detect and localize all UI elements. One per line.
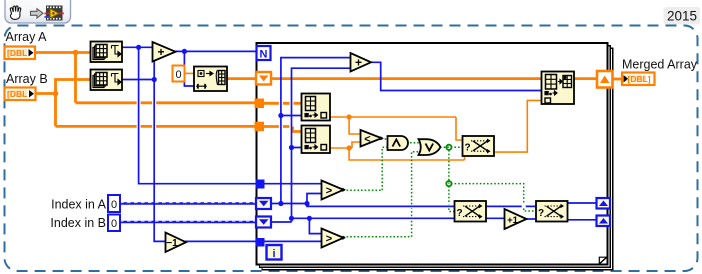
svg-text:Merged Array: Merged Array <box>622 58 698 72</box>
wire Index in A constant to left SR1 <box>120 202 257 204</box>
boolean wire AND out to OR top <box>410 142 421 144</box>
wire index B inside loop to swap2 f <box>271 218 455 222</box>
function AND <box>388 136 409 150</box>
wire Array Size 1 out to add1 and down to tunnel 3 <box>122 47 256 183</box>
svg-text:Index in B: Index in B <box>50 216 106 230</box>
function Array Size 1 <box>91 42 123 63</box>
left shift register index B <box>256 217 271 228</box>
wire swap3 t out to right SR1 <box>568 202 598 204</box>
boolean junction ring 2 <box>446 181 451 186</box>
function Initialize Array <box>194 67 227 92</box>
function less-than <box>361 130 384 147</box>
wire index B down to greater2 top input <box>309 218 322 233</box>
junction dot ArrayB <box>53 91 59 97</box>
svg-text:[DBL: [DBL <box>7 89 27 99</box>
tunnel size A <box>256 180 265 189</box>
junction dot add1 out <box>182 49 187 54</box>
svg-text:Array B: Array B <box>6 72 48 86</box>
tool hand icon <box>10 6 21 19</box>
toolbar <box>5 0 71 23</box>
wire add2 out to Replace Array Subset index input <box>370 62 542 90</box>
function add2 <box>351 53 372 72</box>
junction dot index A IA1 <box>278 113 283 118</box>
wire tunnel4 to greater2 bottom input <box>263 240 322 242</box>
junction dot index A greater <box>304 201 309 206</box>
boolean wire OR out to swap1 s <box>440 146 463 148</box>
function Index Array 1 <box>302 94 331 121</box>
wire IndexArray1 element out to junction, less-than and swap1 t input <box>330 117 463 140</box>
boolean junction ring 1 <box>446 145 451 150</box>
svg-text:<: < <box>364 133 370 145</box>
wire tunnel1 to Index Array 1 <box>260 102 302 105</box>
svg-text:[DBL: [DBL <box>7 48 27 58</box>
svg-text:>: > <box>326 233 332 245</box>
junction dot index A vertical <box>278 201 283 206</box>
svg-text:0: 0 <box>111 218 117 230</box>
function OR <box>419 139 441 155</box>
svg-text:N: N <box>260 49 268 61</box>
svg-text:0: 0 <box>111 199 117 211</box>
wire swap1 out to Replace Array Subset element input <box>494 100 542 152</box>
N count terminal <box>257 46 271 61</box>
boolean wire greater2 out to OR bottom <box>343 152 421 237</box>
tool arrow icon <box>31 9 44 18</box>
for loop frame stacked shadow 2 <box>262 48 613 270</box>
wire Initialize Array out to left shift register <box>227 77 257 80</box>
wire swap2 t out to swap3 t in <box>486 205 536 207</box>
wire tunnel3 to greater1 top input <box>264 183 322 185</box>
svg-text:Array A: Array A <box>6 30 48 44</box>
wire Index in B constant to left SR2 <box>120 221 257 223</box>
wire swap2 f out to increment <box>486 217 505 219</box>
constant 0 DBL for Initialize Array <box>173 66 185 82</box>
boolean wire less-than out to AND top <box>381 138 388 140</box>
wire ArrayA array out to junction and Array Size 1 <box>35 51 90 54</box>
wire Array Size 2 branch down to decrement <box>154 80 166 242</box>
junction dot IA2 out <box>347 145 352 150</box>
function swap3 (swap indexes back) <box>536 201 568 222</box>
folded corner dog-ear <box>599 257 606 264</box>
junction dot index B IA2 <box>289 145 294 150</box>
svg-text:?: ? <box>538 208 544 219</box>
svg-text:?: ? <box>457 208 463 219</box>
tool subVI icon <box>45 6 64 21</box>
function Array Size 2 <box>91 70 123 91</box>
wire add1 out to N terminal and Initialize Array size input <box>175 51 257 86</box>
wire swap3 f out to right SR2 <box>568 219 598 221</box>
tunnel array A <box>255 99 265 109</box>
iteration terminal i <box>267 245 282 260</box>
function Replace Array Subset <box>542 72 575 105</box>
left shift register index A <box>256 198 271 209</box>
indicator Merged Array terminal <box>622 73 655 86</box>
wire ArrayA branch down to loop tunnel 1 (with gaps at blue crossings) <box>76 53 256 103</box>
wire init array element constant 0 <box>184 72 194 74</box>
wire left shift register to Replace Array Subset array in <box>271 77 542 80</box>
function greater2 <box>322 229 346 248</box>
wire ArrayB array out to junction and Array Size 2 <box>36 80 90 94</box>
wire IndexArray2 element out to junction, less-than and swap1 f input <box>330 142 361 148</box>
control Array B terminal <box>5 88 36 101</box>
right shift register orange (merged array out) <box>597 71 613 88</box>
right shift register index B <box>597 216 611 227</box>
function decrement -1 <box>166 233 187 253</box>
junction dot size B <box>152 77 157 82</box>
svg-text:>: > <box>326 185 332 197</box>
boolean wire greater1 out to AND bottom <box>343 147 388 190</box>
svg-text:[DBL]: [DBL] <box>628 74 651 84</box>
wire index B up to IndexArray2 index and add2 bottom <box>292 68 352 218</box>
svg-text:?: ? <box>465 143 471 154</box>
wire Array Size 2 out to add1 bottom <box>122 56 154 80</box>
wire increment out to swap3 f in <box>526 218 536 220</box>
constant 0 Index in A <box>108 195 120 212</box>
function increment +1 <box>505 209 527 229</box>
tunnel size B decremented <box>256 238 265 247</box>
junction dot size A <box>136 45 141 50</box>
wire right shift register to Merged Array indicator <box>612 78 622 81</box>
for loop frame main <box>257 43 608 265</box>
svg-text:0: 0 <box>175 69 181 81</box>
wire index A inside loop to swap2 t <box>271 204 455 207</box>
boolean wire junction down and to swap2 s <box>449 150 455 212</box>
junction dot IA1 out <box>347 114 352 119</box>
svg-text:+: + <box>355 55 362 69</box>
svg-text:2015: 2015 <box>667 8 697 23</box>
constant 0 Index in B <box>108 215 120 232</box>
function swap1 (select values) <box>463 136 495 156</box>
wire index A up to greater1 bottom input <box>307 194 322 204</box>
boolean wire junction right to swap3 s <box>451 184 536 211</box>
svg-text:i: i <box>272 248 275 260</box>
svg-text:+1: +1 <box>507 215 519 226</box>
function add1 <box>153 42 176 62</box>
wire tunnel2 to Index Array 2 with jog <box>260 127 302 132</box>
right shift register index A <box>597 198 611 209</box>
svg-text:−1: −1 <box>166 238 178 249</box>
function swap2 (swap indexes) <box>455 201 487 222</box>
2015 version label <box>664 7 701 25</box>
svg-text:+: + <box>157 45 164 59</box>
svg-text:Index in A: Index in A <box>51 198 107 212</box>
wire ArrayB branch down to loop tunnel 2 <box>56 94 256 127</box>
wire decrement out to tunnel 4 <box>185 240 257 242</box>
tunnel array B <box>255 122 265 132</box>
wire index A up to IndexArray1 index and add2 top <box>281 58 351 204</box>
control Array A terminal <box>5 47 36 60</box>
left shift register orange (merged array) <box>256 72 271 85</box>
junction dot ArrayA <box>73 50 79 56</box>
function greater1 <box>322 181 346 200</box>
junction dot index B vertical <box>289 216 294 221</box>
function Index Array 2 <box>302 126 331 154</box>
wire Replace Array Subset out to right shift register <box>574 77 598 80</box>
junction dot index B greater <box>307 216 312 221</box>
for loop frame stacked shadow 1 <box>260 46 611 268</box>
